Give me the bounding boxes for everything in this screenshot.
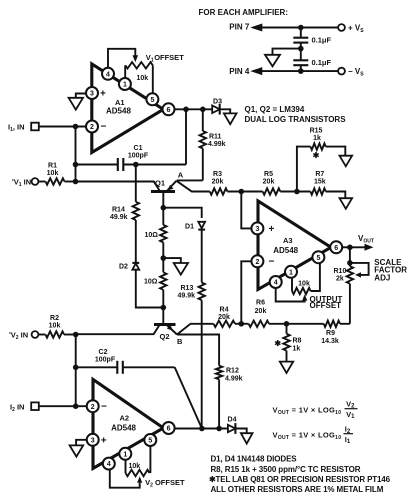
svg-text:15k: 15k <box>314 179 326 186</box>
ground at R7 <box>340 198 353 209</box>
svg-text:R5: R5 <box>264 171 273 178</box>
resistor R2 10k <box>38 334 45 336</box>
A2 pin 6 <box>163 422 175 434</box>
svg-text:2k: 2k <box>336 276 344 283</box>
junction Vout node <box>347 245 353 251</box>
junction R2 node <box>73 332 79 338</box>
potentiometer V1 offset 10k <box>125 62 153 68</box>
junction A1 output / C1 <box>183 107 189 113</box>
op-amp A3 triangle <box>258 201 331 290</box>
svg-text:A2: A2 <box>120 414 130 423</box>
junction Q2 base node <box>161 305 167 311</box>
resistor R3 20k <box>210 188 228 194</box>
A3 pin 6 <box>330 241 342 253</box>
junction C1 left <box>73 162 79 168</box>
svg-text:3: 3 <box>90 91 94 98</box>
svg-text:ADJ: ADJ <box>374 273 390 282</box>
svg-text:6: 6 <box>167 107 171 114</box>
wire to supply ground <box>273 49 301 55</box>
wire I2 IN to A2 pin 2 <box>39 405 87 407</box>
A1 pin 5 <box>146 93 158 105</box>
resistor R15 1k <box>297 147 311 192</box>
svg-text:AD548: AD548 <box>111 424 136 433</box>
svg-text:V2 OFFSET: V2 OFFSET <box>145 478 185 488</box>
svg-text:1: 1 <box>123 451 127 458</box>
ground supply <box>265 55 280 67</box>
svg-text:5: 5 <box>316 255 320 262</box>
svg-text:C1: C1 <box>134 145 143 152</box>
svg-text:10Ω: 10Ω <box>144 278 158 285</box>
resistor R11 4.99k <box>202 109 204 131</box>
A1 pin 1 <box>119 78 131 90</box>
op-amp A2 triangle <box>93 379 163 468</box>
svg-text:A3: A3 <box>283 236 293 245</box>
terminal +Vs <box>338 24 345 31</box>
wire +Vs rail <box>260 27 338 29</box>
svg-text:4: 4 <box>274 280 278 287</box>
A2 pin 5 <box>144 434 156 446</box>
junction R10 top <box>347 260 353 266</box>
svg-text:6: 6 <box>334 245 338 252</box>
ground at R8 <box>280 362 293 373</box>
wire D2 to Q2 base node <box>136 270 164 308</box>
wire A3 output <box>342 246 350 248</box>
A1 pin 3 <box>86 87 98 99</box>
A1 pin 6 <box>163 103 175 115</box>
ground at D4 <box>241 433 253 443</box>
Vout arrow <box>350 246 365 248</box>
svg-text:20k: 20k <box>263 179 275 186</box>
wire V2 node to Q2 collector <box>76 325 160 334</box>
wire D4 to ground <box>235 429 246 434</box>
svg-text:0.1μF: 0.1μF <box>312 36 332 45</box>
svg-text:R6: R6 <box>256 300 265 307</box>
capacitor C2 100pF <box>76 366 118 368</box>
capacitor 0.1uF upper <box>300 28 302 38</box>
svg-text:V2: V2 <box>346 399 355 409</box>
svg-text:1: 1 <box>123 82 127 89</box>
wire to mid ground <box>163 258 181 263</box>
A1 pin 2 <box>86 121 98 133</box>
wire A2 output rail <box>174 428 230 430</box>
svg-text:ʹV1 IN: ʹV1 IN <box>12 178 31 189</box>
svg-text:−: − <box>101 122 107 133</box>
wire R13 to A2 output <box>201 300 203 428</box>
wire C2 diagonal to A2 output <box>175 367 202 428</box>
wire -Vs rail <box>260 70 338 72</box>
pin 4 arrow <box>250 67 262 75</box>
junction C2 left <box>73 365 79 371</box>
svg-text:+ VS: + VS <box>348 23 364 34</box>
svg-text:10k: 10k <box>298 281 310 288</box>
resistor R9 14.3k <box>324 321 340 327</box>
svg-text:Q1, Q2 = LM394: Q1, Q2 = LM394 <box>245 105 305 114</box>
svg-text:5: 5 <box>148 438 152 445</box>
potentiometer V2 offset 10k <box>125 459 127 473</box>
ground at D3 <box>224 113 237 124</box>
resistor R12 4.99k <box>216 366 222 380</box>
svg-text:4.99k: 4.99k <box>208 141 226 148</box>
svg-text:D1, D4 1N4148 DIODES: D1, D4 1N4148 DIODES <box>211 455 298 464</box>
wire C1 to A1 output <box>185 109 187 164</box>
junction I2 node <box>73 403 79 409</box>
svg-text:D4: D4 <box>228 417 237 424</box>
terminal I2 IN <box>31 402 39 410</box>
wiper R10 scale factor <box>355 272 361 277</box>
svg-text:0.1μF: 0.1μF <box>312 58 332 67</box>
wire node B to R4 <box>177 324 214 335</box>
diode D3 <box>212 106 220 114</box>
svg-text:Q2: Q2 <box>160 332 170 341</box>
svg-text:20k: 20k <box>255 308 267 315</box>
svg-text:A: A <box>178 170 184 179</box>
A2 pin 3 <box>87 434 99 446</box>
svg-text:OFFSET: OFFSET <box>310 301 342 310</box>
terminal V1 IN <box>32 178 39 185</box>
svg-text:R12: R12 <box>226 368 239 375</box>
resistor R13 49.9k <box>199 283 205 301</box>
svg-text:4: 4 <box>106 71 110 78</box>
svg-text:R2: R2 <box>50 315 59 322</box>
A3 pin 2 <box>251 255 263 267</box>
svg-text:− VS: − VS <box>348 67 364 78</box>
resistor R1 10k <box>38 181 45 183</box>
Q1 emitter <box>167 181 177 191</box>
ground mid divider <box>174 263 188 275</box>
svg-text:49.9k: 49.9k <box>178 293 196 300</box>
svg-text:10k: 10k <box>137 75 149 82</box>
wiper arrow A2 pot <box>137 476 142 483</box>
svg-text:R13: R13 <box>181 285 194 292</box>
svg-text:R14: R14 <box>112 207 125 214</box>
svg-text:R8, R15 1k + 3500 ppm/°C TC RE: R8, R15 1k + 3500 ppm/°C TC RESISTOR <box>211 465 361 474</box>
junction A1 output / R11 <box>200 107 206 113</box>
capacitor 0.1uF lower <box>300 49 302 60</box>
svg-text:I1: I1 <box>345 435 351 445</box>
svg-text:AD548: AD548 <box>106 106 131 115</box>
svg-text:1k: 1k <box>293 346 301 353</box>
A2 pin 4 <box>103 458 115 470</box>
ground at R15 <box>340 156 353 167</box>
resistor 10 ohm upper <box>162 208 164 225</box>
junction R4/R6 node <box>239 321 245 327</box>
junction R6/R8/R9 node <box>284 321 290 327</box>
svg-text:PIN 7: PIN 7 <box>229 23 250 32</box>
wire D3 to ground <box>220 109 231 113</box>
svg-text:5: 5 <box>150 97 154 104</box>
svg-text:VOUT: VOUT <box>358 234 374 245</box>
svg-text:✱: ✱ <box>313 151 320 160</box>
wire Q1 base node to D1 <box>163 208 201 218</box>
ground at A2 pin 3 <box>76 440 87 446</box>
svg-text:20k: 20k <box>218 314 230 321</box>
wire Q2 base node down <box>162 308 164 325</box>
svg-text:10k: 10k <box>47 170 59 177</box>
A3 pin 1 <box>285 266 297 278</box>
svg-text:+: + <box>100 89 106 100</box>
svg-text:VOUT = 1V × LOG10: VOUT = 1V × LOG10 <box>273 431 342 442</box>
svg-text:D1: D1 <box>185 224 194 231</box>
junction on +Vs rail <box>298 25 304 31</box>
junction on -Vs rail <box>298 68 304 74</box>
svg-text:✱TEL LAB Q81 OR PRECISION RESI: ✱TEL LAB Q81 OR PRECISION RESISTOR PT146 <box>209 475 391 484</box>
resistor R7 15k <box>311 188 326 194</box>
junction between 10 ohm resistors <box>161 255 167 261</box>
resistor R5 20k <box>263 188 281 194</box>
svg-text:+: + <box>101 435 107 446</box>
wiper arrow A3 pot <box>302 294 307 301</box>
diode D4 <box>228 425 236 432</box>
Q1 base lead <box>162 192 164 208</box>
svg-text:6: 6 <box>167 426 171 433</box>
terminal I1 IN <box>31 123 39 131</box>
svg-text:100pF: 100pF <box>128 153 149 160</box>
svg-text:V1: V1 <box>346 410 355 420</box>
wire I1 IN to A1 pin 2 <box>39 126 87 128</box>
A2 pin 2 <box>87 400 99 412</box>
svg-text:AD548: AD548 <box>273 246 298 255</box>
A2 pin 1 <box>119 448 131 460</box>
svg-text:3: 3 <box>91 437 95 444</box>
junction R5/R7/R15 node <box>294 189 300 195</box>
svg-text:R15: R15 <box>310 128 323 135</box>
A3 pin 5 <box>312 251 324 263</box>
svg-text:R9: R9 <box>326 330 335 337</box>
wire D1 to R13 <box>201 230 203 283</box>
terminal V2 IN <box>32 331 39 338</box>
resistor R8 1k <box>286 324 288 334</box>
wire summing node to Q1 collector <box>76 182 160 192</box>
svg-text:3: 3 <box>255 226 259 233</box>
svg-text:−: − <box>101 401 107 412</box>
wire node B to R12 <box>177 335 219 366</box>
svg-text:B: B <box>177 337 183 346</box>
A1 pin 4 <box>102 68 114 80</box>
svg-text:R8: R8 <box>293 338 302 345</box>
junction between capacitors <box>298 46 304 52</box>
svg-text:C2: C2 <box>99 349 108 356</box>
pin 7 arrow <box>250 24 262 32</box>
svg-text:10Ω: 10Ω <box>145 232 159 239</box>
svg-text:4.99k: 4.99k <box>225 376 243 383</box>
potentiometer output offset 10k <box>291 277 293 291</box>
svg-text:14.3k: 14.3k <box>321 338 339 345</box>
wire R3/R5 junction to A3 pin 3 <box>241 192 252 229</box>
svg-text:10k: 10k <box>49 323 61 330</box>
svg-text:−: − <box>269 256 275 267</box>
svg-text:DUAL LOG TRANSISTORS: DUAL LOG TRANSISTORS <box>245 115 347 124</box>
wire R11 to node A <box>177 179 203 181</box>
junction C1 right / R14 top <box>133 162 139 168</box>
svg-text:1k: 1k <box>313 135 321 142</box>
svg-text:4: 4 <box>107 461 111 468</box>
svg-text:R7: R7 <box>315 171 324 178</box>
junction R3/R5 node <box>239 189 245 195</box>
svg-text:2: 2 <box>91 404 95 411</box>
svg-text:R4: R4 <box>220 307 229 314</box>
svg-text:ʹV2 IN: ʹV2 IN <box>9 331 28 342</box>
junction I1 node <box>73 124 79 130</box>
wire A2 summing node vertical <box>75 335 77 407</box>
svg-text:R1: R1 <box>48 163 57 170</box>
svg-text:V1OFFSET: V1OFFSET <box>146 53 184 63</box>
svg-text:49.9k: 49.9k <box>110 214 128 221</box>
diode D1 <box>198 222 205 228</box>
potentiometer R10 2k <box>349 247 351 266</box>
terminal -Vs <box>338 68 345 75</box>
svg-text:+: + <box>269 224 275 235</box>
svg-text:100pF: 100pF <box>95 357 116 364</box>
svg-text:2: 2 <box>90 124 94 131</box>
A3 pin 4 <box>270 276 282 288</box>
svg-text:1: 1 <box>289 269 293 276</box>
junction A2 output / R13 <box>199 426 205 432</box>
svg-text:10k: 10k <box>129 463 141 470</box>
junction A2 output / R12 <box>216 426 222 432</box>
junction Q1 base node <box>161 205 167 211</box>
wire junction to A3 pin 2 <box>241 261 252 324</box>
svg-text:✱: ✱ <box>274 339 281 348</box>
svg-text:D2: D2 <box>119 264 128 271</box>
svg-text:VOUT = 1V × LOG10: VOUT = 1V × LOG10 <box>273 406 342 417</box>
transistor Q2 base bar <box>154 323 176 326</box>
svg-text:R3: R3 <box>213 171 222 178</box>
resistor R14 49.9k <box>135 165 137 202</box>
resistor R4 20k <box>214 321 236 327</box>
A3 pin 3 <box>251 222 263 234</box>
Q2 emitter <box>167 325 177 335</box>
diode D2 <box>132 262 139 264</box>
resistor 10 ohm lower <box>160 272 166 290</box>
op-amp A1 triangle <box>92 64 164 153</box>
transistor Q1 base bar <box>151 190 175 193</box>
wire node A to R3 <box>176 181 209 192</box>
junction R1 node <box>73 179 79 185</box>
svg-text:FOR EACH AMPLIFIER:: FOR EACH AMPLIFIER: <box>199 8 288 17</box>
svg-text:I2 IN: I2 IN <box>10 403 24 414</box>
svg-text:PIN 4: PIN 4 <box>229 67 250 76</box>
svg-text:2: 2 <box>255 259 259 266</box>
svg-text:I1, IN: I1, IN <box>8 123 25 134</box>
svg-text:R10: R10 <box>334 268 347 275</box>
wire A1 pin4 to offset pot wiper <box>108 49 135 70</box>
svg-text:ALL OTHER RESISTORS ARE 1% MET: ALL OTHER RESISTORS ARE 1% METAL FILM <box>211 485 384 494</box>
wire A1 output <box>174 108 212 110</box>
svg-text:R11: R11 <box>209 134 222 141</box>
resistor R6 20k <box>249 321 269 327</box>
capacitor C1 100pF <box>76 164 118 166</box>
svg-text:20k: 20k <box>212 179 224 186</box>
ground at A1 pin 3 <box>76 94 87 98</box>
wire summing node vertical <box>75 127 77 182</box>
